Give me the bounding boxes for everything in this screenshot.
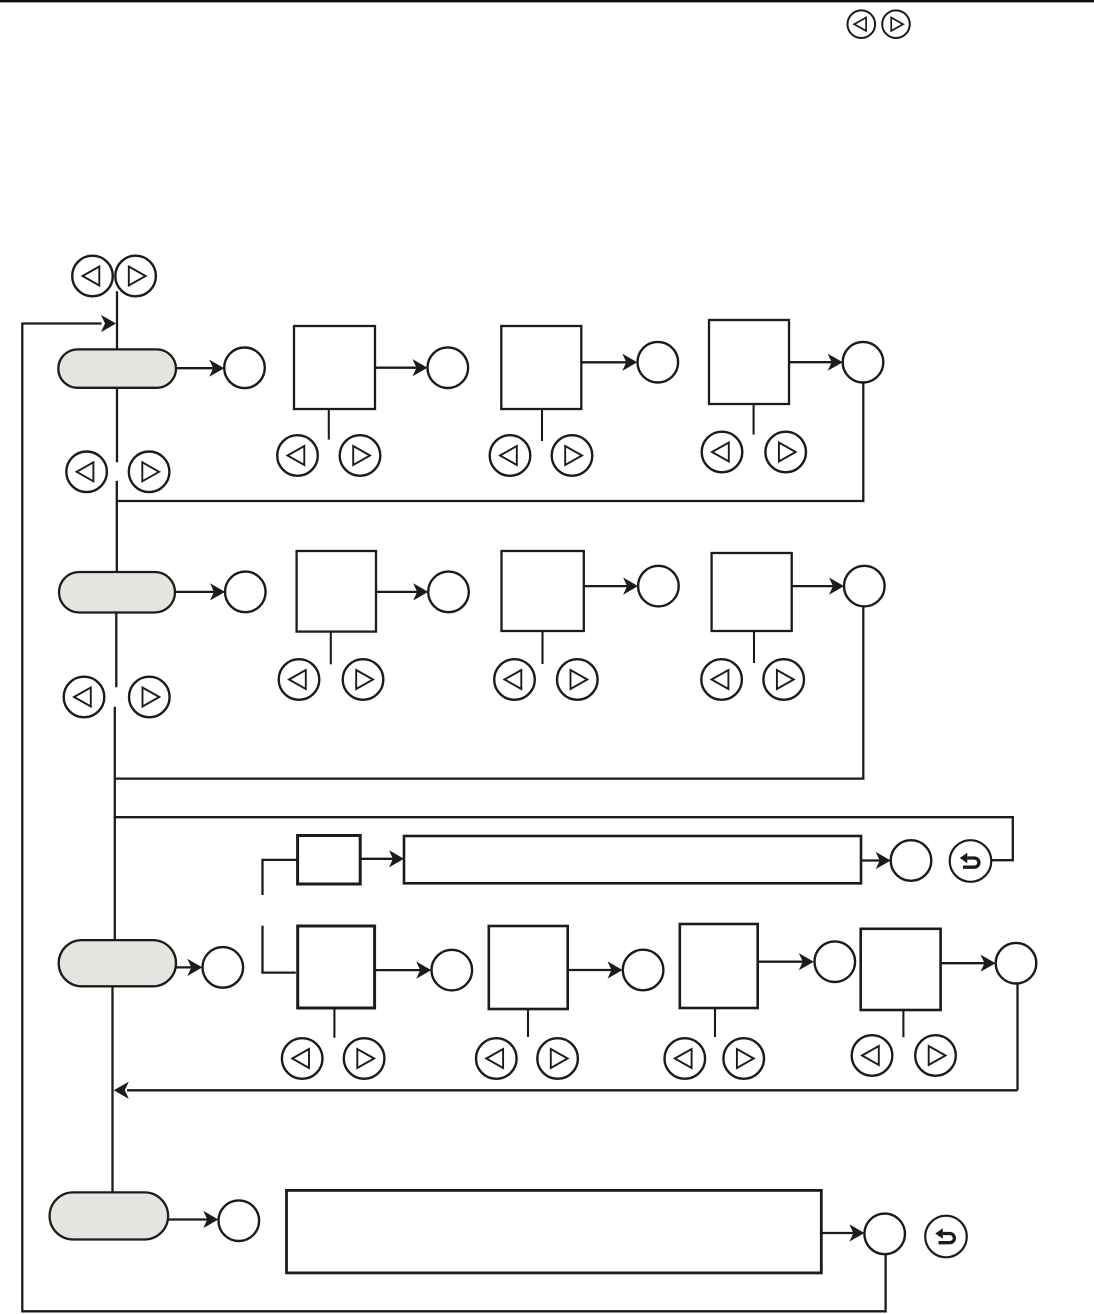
pill menu 3 <box>59 940 176 986</box>
box display row4 <box>287 1190 822 1273</box>
circle status 1-3 <box>638 342 679 383</box>
circle status 2-2 <box>428 572 469 613</box>
box option 3-3 <box>680 924 758 1008</box>
wire main rail seg1 <box>116 291 118 350</box>
button top-right next (small) <box>882 10 910 38</box>
pill menu 1 <box>58 349 176 387</box>
wire stub below box 2-3 <box>753 631 755 663</box>
wire stub below box 1-3 <box>753 404 755 435</box>
box option 3-4 <box>861 929 941 1010</box>
button prev under box 3-1 <box>282 1038 323 1079</box>
box option 2-1 <box>297 551 376 632</box>
circle status 3-2 <box>432 950 473 991</box>
arrow box2-2 to status2-3 <box>584 578 638 595</box>
button next under box 2-3 <box>763 659 804 700</box>
wire row1 return loop <box>117 383 864 502</box>
wire elbow small box upper <box>263 860 298 895</box>
wire elbow small box lower <box>263 926 296 973</box>
arrow box2-1 to status2-2 <box>376 583 428 600</box>
button next under box 3-3 <box>723 1038 764 1079</box>
button next under box 1-3 <box>765 432 806 473</box>
arrow box3-4 to status3-5 <box>941 955 996 972</box>
arrow pill4 to status4-1 <box>168 1211 218 1228</box>
circle status 3-0 <box>891 840 932 881</box>
wire stub below box 3-4 <box>902 1010 904 1037</box>
button next under pill2 <box>129 677 170 718</box>
box option 3-2 <box>489 926 568 1009</box>
circle status 2-1 <box>225 572 266 613</box>
arrow box3-2 to status3-3 <box>568 961 623 978</box>
pill menu 4 <box>50 1192 169 1239</box>
wire row3 top loop <box>114 817 1013 860</box>
wire stub below box 3-1 <box>333 1008 335 1038</box>
pill menu 2 <box>59 572 175 613</box>
wire row3 return bottom <box>127 1089 1018 1091</box>
wire stub below box 3-2 <box>527 1009 529 1037</box>
top border bar <box>0 0 1094 2</box>
arrow box1-3 to status1-4 <box>789 354 843 371</box>
button prev under box 1-3 <box>702 432 743 473</box>
wire main rail seg5 <box>114 707 116 941</box>
arrow box1-2 to status1-3 <box>581 354 637 371</box>
arrow row3 return into rail <box>114 1082 129 1099</box>
button prev under box 2-3 <box>701 659 742 700</box>
button next under box 1-2 <box>552 435 593 476</box>
button prev under pill1 <box>66 452 107 493</box>
wire main rail seg3 <box>116 481 118 572</box>
circle status 3-5 <box>996 943 1037 984</box>
button nav prev (top of rail) <box>72 256 113 297</box>
box display row3 <box>404 836 861 883</box>
wire stub below box 2-1 <box>330 632 332 665</box>
arrow pill2 to status2-1 <box>175 583 225 600</box>
button prev under pill2 <box>64 677 105 718</box>
arrow box2-3 to status2-4 <box>792 578 844 595</box>
box option 1-2 <box>501 326 581 409</box>
circle status 4-2 <box>864 1214 905 1255</box>
circle status 1-2 <box>428 347 469 388</box>
arrow entry into main rail <box>101 315 116 332</box>
circle status 2-3 <box>638 566 679 607</box>
button return row3 <box>950 840 992 882</box>
button next under box 3-2 <box>537 1038 578 1079</box>
box option 1-1 <box>294 326 375 409</box>
button next under pill1 <box>129 452 170 493</box>
wire stub below box 1-2 <box>541 409 543 441</box>
box option 2-2 <box>502 551 584 631</box>
circle status 1-4 <box>843 342 884 383</box>
circle status 4-1 <box>219 1200 260 1241</box>
arrow pill1 to status1 <box>176 360 224 377</box>
arrow display3 to status3-0 <box>861 852 891 869</box>
button next under box 2-2 <box>557 659 598 700</box>
wire row3 return loop <box>1016 984 1018 1091</box>
button nav next (top of rail) <box>115 256 156 297</box>
circle status 3-3 <box>623 950 664 991</box>
wire stub below box 2-2 <box>541 631 543 664</box>
circle status 1-1 <box>224 348 265 389</box>
arrow box1-1 to status1-2 <box>375 359 428 376</box>
arrow box3-3 to status3-4 <box>758 953 814 970</box>
button prev under box 3-2 <box>476 1038 517 1079</box>
wire stub below box 1-1 <box>328 409 330 440</box>
wire main rail seg2 <box>116 387 118 462</box>
button next under box 2-1 <box>343 659 384 700</box>
wire main rail seg4 <box>115 612 117 687</box>
circle status 3-4 <box>815 941 856 982</box>
button return row4 <box>925 1216 967 1258</box>
button next under box 1-1 <box>340 435 381 476</box>
wire left return rail <box>22 324 885 1312</box>
box code small <box>298 836 361 885</box>
button prev under box 2-1 <box>279 659 320 700</box>
wire main rail seg6 <box>111 986 113 1193</box>
arrow pill3 to status3-1 <box>176 959 202 976</box>
button top-right prev (small) <box>848 10 876 38</box>
box option 3-1 <box>298 926 375 1008</box>
button prev under box 1-2 <box>490 435 531 476</box>
button prev under box 2-2 <box>494 659 535 700</box>
button prev under box 3-4 <box>852 1035 893 1076</box>
arrow small box to display3 <box>360 850 404 867</box>
arrow box3-1 to status3-2 <box>375 962 432 979</box>
button next under box 3-1 <box>344 1038 385 1079</box>
button prev under box 1-1 <box>277 435 318 476</box>
circle status 2-4 <box>844 566 885 607</box>
arrow display4 to status4-2 <box>821 1224 864 1241</box>
wire row2 return loop <box>116 607 863 779</box>
box option 2-3 <box>712 553 792 631</box>
circle status 3-1 <box>203 947 244 988</box>
button prev under box 3-3 <box>665 1038 706 1079</box>
box option 1-3 <box>709 320 789 404</box>
button next under box 3-4 <box>915 1035 956 1076</box>
wire stub below box 3-3 <box>714 1008 716 1037</box>
